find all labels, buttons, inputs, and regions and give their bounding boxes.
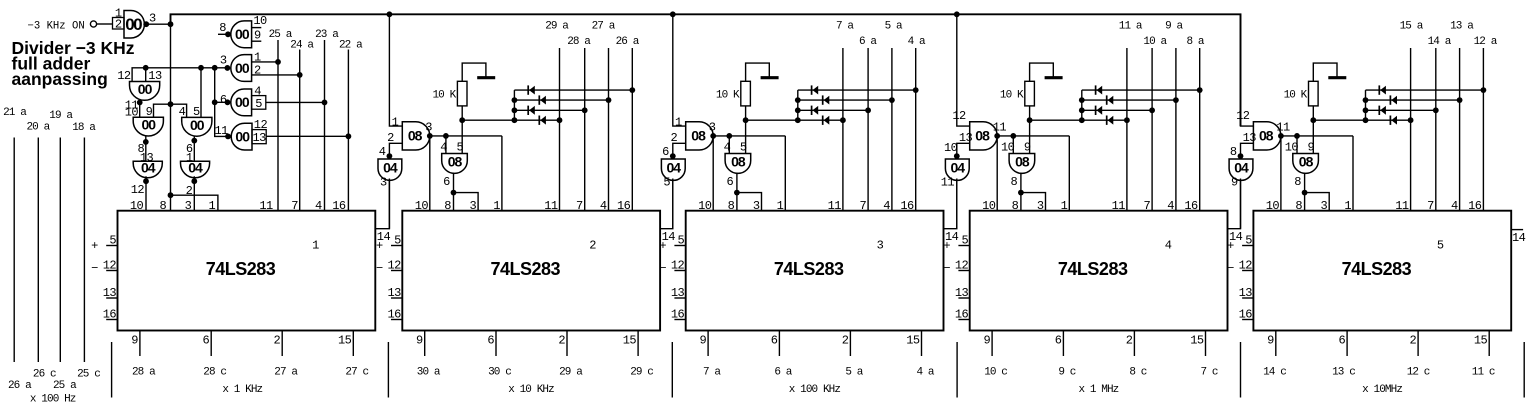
- svg-text:19 a: 19 a: [49, 110, 73, 122]
- svg-text:5: 5: [962, 234, 969, 248]
- svg-text:10: 10: [130, 199, 144, 213]
- bus line 10 a to block4 IC pin 7: [1143, 36, 1167, 211]
- U1 bottom pins 9 6 2 15: [131, 331, 353, 357]
- wire block2 AND output net to IC pins 10 and 1: [427, 133, 502, 211]
- wire block3 V-AND output to IC pins 8 and 3: [734, 173, 762, 211]
- U2 left pins 5 12 13 16: [376, 234, 402, 322]
- wire -3KHz bus drop to block2 AND gate pin 1: [389, 14, 402, 126]
- signal line 18 a: [72, 122, 96, 362]
- wire block4 V-AND input pin 9 / resistor bottom: [1029, 106, 1031, 154]
- svg-text:7: 7: [576, 199, 583, 213]
- svg-text:2: 2: [1126, 334, 1133, 348]
- U2 bottom pins 9 6 2 15: [416, 331, 638, 357]
- svg-text:10 K: 10 K: [1284, 90, 1308, 102]
- svg-text:16: 16: [1468, 199, 1482, 213]
- bus line 14 a to block5 IC pin 7: [1428, 36, 1452, 211]
- svg-text:12: 12: [1236, 109, 1250, 123]
- svg-text:00: 00: [125, 15, 142, 34]
- group separator line: [956, 342, 958, 398]
- svg-text:25 c: 25 c: [77, 368, 100, 380]
- svg-text:4: 4: [1451, 199, 1458, 213]
- bus line 26 a to block2 IC pin 16: [616, 36, 640, 211]
- svg-text:+: +: [376, 239, 383, 253]
- NAND gate G1 00 pins 1,2 out 3: [113, 6, 157, 38]
- svg-text:7: 7: [1427, 199, 1434, 213]
- svg-text:6: 6: [1055, 334, 1062, 348]
- bus line 4 a to block3 IC pin 16: [908, 36, 926, 211]
- svg-text:08: 08: [408, 128, 423, 144]
- U2 output signal labels: [417, 367, 654, 379]
- svg-text:9: 9: [131, 334, 138, 348]
- svg-text:10 c: 10 c: [984, 367, 1007, 379]
- input terminal -3 KHz ON: [28, 20, 113, 32]
- svg-text:8: 8: [1295, 199, 1302, 213]
- svg-text:27 a: 27 a: [592, 20, 616, 32]
- svg-text:11: 11: [1395, 199, 1409, 213]
- svg-text:6 a: 6 a: [859, 36, 877, 48]
- wire block3 diode row 3: [798, 107, 871, 113]
- svg-text:00: 00: [190, 117, 205, 133]
- U2 pin 14 wire to inverter of next stage: [660, 180, 675, 244]
- diode block2 D1: [528, 85, 535, 94]
- svg-text:3: 3: [753, 199, 760, 213]
- wire DG2 output pin 8 to inverter IV1: [138, 136, 154, 165]
- svg-text:−: −: [91, 262, 98, 276]
- svg-text:00: 00: [142, 117, 157, 133]
- U1 frequency group label: [222, 384, 262, 396]
- diode block5 D1: [1379, 85, 1386, 94]
- svg-text:5: 5: [255, 97, 262, 111]
- inverter block3 04 pins 6/5: [661, 145, 685, 190]
- wire block5 diode row 1: [1366, 87, 1487, 93]
- wire block5 inverter input from previous IC pin 14: [1240, 179, 1242, 229]
- svg-text:2: 2: [558, 334, 565, 348]
- svg-text:x 100 KHz: x 100 KHz: [789, 384, 841, 396]
- U3 left pins 5 12 13 16: [659, 234, 685, 322]
- svg-text:11: 11: [828, 199, 842, 213]
- diode block4 D4: [1107, 116, 1114, 125]
- svg-text:12: 12: [671, 259, 685, 273]
- wire block4 inverter input from previous IC pin 14: [956, 179, 958, 229]
- svg-text:13: 13: [671, 286, 685, 300]
- wire block4 diode row 1: [1082, 87, 1203, 93]
- U2 top pin number labels: [415, 199, 631, 213]
- svg-text:11: 11: [215, 124, 229, 138]
- svg-text:16: 16: [1239, 308, 1253, 322]
- wire block2 diode row 2: [514, 97, 611, 103]
- svg-text:08: 08: [731, 153, 746, 169]
- svg-text:12 c: 12 c: [1407, 367, 1430, 379]
- wire block5 diode row 2: [1366, 97, 1463, 103]
- AND gate block4 08 pins 12,13 out 11: [952, 109, 1006, 150]
- svg-text:13: 13: [1239, 286, 1253, 300]
- svg-text:04: 04: [951, 159, 966, 175]
- svg-text:12: 12: [387, 259, 401, 273]
- wire DG2 pin 9 from -3KHz vertical: [154, 104, 187, 117]
- svg-text:−: −: [1227, 262, 1234, 276]
- svg-text:00: 00: [235, 26, 250, 42]
- AND gate block5 08 pins 12,13 out 11: [1236, 109, 1290, 150]
- svg-text:7 a: 7 a: [703, 367, 721, 379]
- svg-text:x 100 Hz: x 100 Hz: [30, 394, 76, 406]
- svg-text:x 10 KHz: x 10 KHz: [508, 384, 554, 396]
- AND gate block2 08 pins 1,2 out 3: [387, 116, 432, 150]
- svg-text:7 a: 7 a: [836, 20, 854, 32]
- U4 left pins 5 12 13 16: [943, 234, 969, 322]
- svg-text:5: 5: [678, 234, 685, 248]
- svg-text:6: 6: [220, 93, 227, 107]
- svg-text:2: 2: [1409, 334, 1416, 348]
- diode block3 D4: [823, 116, 830, 125]
- U1 pin 14 wire to inverter of next stage: [375, 180, 390, 244]
- svg-text:12: 12: [103, 259, 117, 273]
- wire block5 V-AND output to IC pins 8 and 3: [1302, 173, 1330, 211]
- svg-text:11 c: 11 c: [1472, 367, 1495, 379]
- svg-text:30 c: 30 c: [488, 367, 511, 379]
- AND gate block2 08 vertical pins 4,5 out 6: [440, 141, 467, 189]
- svg-text:6: 6: [771, 334, 778, 348]
- svg-text:15: 15: [906, 334, 920, 348]
- svg-text:10: 10: [415, 199, 429, 213]
- svg-text:29 a: 29 a: [545, 20, 569, 32]
- U5 output signal labels: [1263, 367, 1495, 379]
- inverter block2 04 pins 4/3: [378, 145, 402, 190]
- svg-text:8 a: 8 a: [1186, 36, 1204, 48]
- svg-text:1: 1: [312, 239, 319, 253]
- svg-text:14: 14: [1512, 231, 1526, 245]
- svg-text:16: 16: [332, 199, 346, 213]
- svg-text:15: 15: [623, 334, 637, 348]
- wire block3 AND pin 2 to inverter output: [670, 143, 686, 159]
- AND gate block5 08 vertical pins 10,9 out 8: [1285, 141, 1319, 189]
- ground symbol block4: [1045, 76, 1063, 79]
- bus line 12 a to block5 IC pin 16: [1474, 36, 1498, 211]
- svg-text:74LS283: 74LS283: [774, 259, 844, 279]
- svg-text:08: 08: [1259, 128, 1274, 144]
- U3 output signal labels: [703, 367, 935, 379]
- svg-text:28 a: 28 a: [567, 36, 591, 48]
- svg-text:6: 6: [203, 334, 210, 348]
- svg-text:04: 04: [141, 160, 156, 176]
- wire block2 V-AND input pin 4: [445, 136, 447, 154]
- adder IC U4 74LS283 body: [970, 211, 1228, 331]
- adder IC U1 74LS283 body: [118, 211, 376, 331]
- svg-text:16: 16: [900, 199, 914, 213]
- svg-text:74LS283: 74LS283: [206, 259, 276, 279]
- wire -3KHz bus drop to block3 AND gate pin 1: [673, 14, 686, 126]
- svg-text:3: 3: [1321, 199, 1328, 213]
- svg-text:x 1 MHz: x 1 MHz: [1078, 384, 1118, 396]
- U1 left pins 5 12 13 16: [91, 234, 117, 322]
- svg-text:4: 4: [1167, 199, 1174, 213]
- bus line 25 a to IC1 pin: [269, 29, 293, 211]
- svg-text:16: 16: [103, 308, 117, 322]
- svg-text:10: 10: [1001, 141, 1015, 155]
- svg-text:9 c: 9 c: [1058, 367, 1075, 379]
- junction -3KHz bus / block4 drop: [954, 11, 960, 17]
- wire block4 resistor top to ground: [1030, 63, 1054, 81]
- wire block5 V-AND input pin 10: [1296, 136, 1298, 154]
- svg-text:5: 5: [109, 234, 116, 248]
- wire DG1 output pin 11 to DG2 pin 10: [125, 99, 143, 120]
- wire block4 V-AND input pin 10: [1012, 136, 1014, 154]
- svg-text:08: 08: [975, 128, 990, 144]
- U3 bottom pins 9 6 2 15: [699, 331, 921, 357]
- svg-text:04: 04: [667, 159, 682, 175]
- svg-text:1: 1: [115, 6, 122, 20]
- svg-text:12: 12: [952, 109, 966, 123]
- wire gate G2 output net: [132, 65, 230, 82]
- svg-text:14 a: 14 a: [1428, 36, 1452, 48]
- svg-text:74LS283: 74LS283: [1342, 259, 1412, 279]
- svg-text:6 a: 6 a: [774, 367, 792, 379]
- svg-text:4: 4: [883, 199, 890, 213]
- svg-text:8: 8: [219, 21, 226, 35]
- svg-text:04: 04: [188, 160, 203, 176]
- wire block5 diode row 3: [1366, 107, 1439, 113]
- svg-text:04: 04: [1234, 159, 1249, 175]
- svg-text:7: 7: [859, 199, 866, 213]
- junction -3KHz bus / block2 drop: [387, 11, 393, 17]
- bus line 7 a to block3 IC pin 11: [836, 20, 854, 210]
- svg-text:4: 4: [315, 199, 322, 213]
- wire block3 V-AND input pin 5 / resistor bottom: [745, 106, 747, 154]
- svg-text:5: 5: [1245, 234, 1252, 248]
- U3 frequency group label: [789, 384, 841, 396]
- wire block3 diode tie vertical: [795, 90, 801, 120]
- svg-text:9: 9: [699, 334, 706, 348]
- svg-text:−: −: [376, 262, 383, 276]
- svg-text:30 a: 30 a: [417, 367, 441, 379]
- svg-text:13: 13: [148, 69, 162, 83]
- svg-text:1: 1: [254, 51, 261, 65]
- svg-text:3: 3: [380, 176, 387, 190]
- svg-text:x 1 KHz: x 1 KHz: [222, 384, 262, 396]
- wire block5 resistor top to ground: [1313, 63, 1337, 81]
- wire block5 AND pin 13 to inverter output: [1238, 143, 1254, 159]
- wire block2 resistor top to ground: [462, 63, 486, 81]
- wire IV2 output pin 2 to IC1 pin 3: [186, 176, 198, 210]
- wire block5 diode tie vertical: [1363, 90, 1369, 120]
- wire DG1 pin 13: [145, 68, 147, 82]
- svg-text:28 c: 28 c: [203, 367, 226, 379]
- inverter block5 04 pins 8/9: [1229, 145, 1253, 190]
- AND gate block4 08 vertical pins 10,9 out 8: [1001, 141, 1035, 189]
- U5 bottom pins 9 6 2 15: [1267, 331, 1489, 357]
- svg-text:74LS283: 74LS283: [1058, 259, 1128, 279]
- svg-text:08: 08: [691, 128, 706, 144]
- svg-text:1: 1: [1061, 199, 1068, 213]
- svg-text:6: 6: [443, 175, 450, 189]
- svg-text:4 a: 4 a: [916, 367, 934, 379]
- svg-text:11 a: 11 a: [1119, 20, 1143, 32]
- svg-text:3: 3: [709, 121, 716, 135]
- svg-text:9: 9: [416, 334, 423, 348]
- svg-text:4: 4: [179, 105, 186, 119]
- wire block2 diode tie vertical: [512, 90, 518, 120]
- svg-text:10 a: 10 a: [1143, 36, 1167, 48]
- wire block4 diode tie vertical: [1079, 90, 1085, 120]
- svg-text:5 a: 5 a: [885, 20, 903, 32]
- wire block2 AND pin 2 to inverter output: [387, 143, 403, 159]
- svg-text:23 a: 23 a: [315, 29, 339, 41]
- wire block3 V-AND input pin 4: [728, 136, 730, 154]
- NAND gate DG2 00 pins 10,9 out 8: [133, 105, 163, 136]
- svg-text:8: 8: [1230, 145, 1237, 159]
- svg-text:12: 12: [1239, 259, 1253, 273]
- svg-text:−: −: [659, 262, 666, 276]
- wire DG3 output pin 6 to inverter IV2: [186, 136, 197, 165]
- wire block2 V-AND input pin 5 / resistor bottom: [461, 106, 463, 154]
- svg-text:+: +: [1227, 239, 1234, 253]
- NAND gate G2 00 pins 1,2 out 3: [220, 51, 303, 82]
- U3 pin 14 wire to inverter of next stage: [944, 180, 959, 244]
- svg-text:8 c: 8 c: [1129, 367, 1146, 379]
- wire block3 diode row 2: [798, 97, 895, 103]
- svg-text:2: 2: [274, 334, 281, 348]
- NAND gate DG3 00 pins 4,5 out 6: [179, 105, 212, 136]
- wire jog to IC1 pin 1: [171, 195, 218, 211]
- diode block2 D3: [528, 106, 535, 115]
- svg-text:16: 16: [671, 308, 685, 322]
- svg-text:11: 11: [544, 199, 558, 213]
- wire block2 inverter input from previous IC pin 14: [388, 179, 390, 229]
- svg-text:13: 13: [103, 286, 117, 300]
- group separator line: [111, 342, 113, 398]
- inverter block4 04 pins 10/11: [941, 141, 970, 189]
- wire block5 diode row 4 from resistor: [1310, 117, 1413, 123]
- svg-text:4: 4: [379, 145, 386, 159]
- svg-text:+: +: [943, 239, 950, 253]
- svg-text:2: 2: [186, 184, 193, 198]
- svg-text:5 a: 5 a: [845, 367, 863, 379]
- diode block3 D3: [812, 106, 819, 115]
- signal line 19 a: [49, 110, 73, 362]
- U1 output signal labels: [132, 367, 369, 379]
- bus line 23 a to IC1 pin: [315, 29, 339, 211]
- svg-text:1: 1: [493, 199, 500, 213]
- wire to G3 and G4 outputs: [212, 68, 231, 140]
- svg-text:21 a: 21 a: [3, 107, 27, 119]
- svg-text:27 a: 27 a: [274, 367, 298, 379]
- svg-text:00: 00: [235, 60, 250, 76]
- svg-text:16: 16: [617, 199, 631, 213]
- svg-text:4: 4: [1165, 239, 1172, 253]
- svg-text:24 a: 24 a: [290, 40, 314, 52]
- svg-text:5: 5: [1437, 239, 1444, 253]
- svg-text:8: 8: [444, 199, 451, 213]
- svg-text:13: 13: [252, 131, 266, 145]
- wire block5 V-AND input pin 9 / resistor bottom: [1312, 106, 1314, 154]
- svg-text:1: 1: [1344, 199, 1351, 213]
- resistor block5 10K: [1284, 81, 1319, 106]
- NAND gate DG1 00 pins 12,13 out 11: [117, 69, 162, 100]
- U5 left pins 5 12 13 16: [1227, 234, 1253, 322]
- svg-text:1: 1: [392, 116, 399, 130]
- svg-text:10: 10: [944, 141, 958, 155]
- svg-text:16: 16: [1184, 199, 1198, 213]
- ground symbol block3: [761, 76, 779, 79]
- diode block4 D3: [1096, 106, 1103, 115]
- svg-text:00: 00: [138, 81, 153, 97]
- svg-text:00: 00: [235, 128, 250, 144]
- NAND gate G4 00 pins 12,13 out 11: [215, 118, 352, 150]
- svg-text:11: 11: [993, 121, 1007, 135]
- svg-text:7: 7: [291, 199, 298, 213]
- svg-text:1: 1: [208, 199, 215, 213]
- wire -3KHz bus drop to block4 AND gate pin 12: [957, 14, 970, 126]
- group separator line: [387, 342, 389, 398]
- svg-text:1: 1: [777, 199, 784, 213]
- wire block5 AND output net to IC pins 10 and 1: [1278, 133, 1353, 211]
- svg-text:10 K: 10 K: [1000, 90, 1024, 102]
- svg-text:13 a: 13 a: [1450, 20, 1474, 32]
- svg-text:−3 KHz ON: −3 KHz ON: [28, 20, 85, 32]
- svg-text:11: 11: [941, 176, 955, 190]
- svg-text:10: 10: [982, 199, 996, 213]
- svg-text:2: 2: [254, 64, 261, 78]
- wire DG3 pin 5: [200, 68, 202, 118]
- U5 frequency group label: [1362, 384, 1402, 396]
- diode block4 D1: [1096, 85, 1103, 94]
- svg-text:8: 8: [159, 199, 166, 213]
- U2 frequency group label: [508, 384, 554, 396]
- resistor block2 10K: [432, 81, 467, 106]
- bus line 9 a to block4 IC pin 4: [1165, 20, 1183, 210]
- NAND gate G3 00 pins 4,5 out 6: [220, 84, 328, 115]
- group separator line: [671, 342, 673, 398]
- wire block2 diode row 1: [514, 87, 635, 93]
- svg-text:18 a: 18 a: [72, 122, 96, 134]
- svg-text:5: 5: [394, 234, 401, 248]
- diode block3 D1: [812, 85, 819, 94]
- group separator line: [1240, 342, 1242, 398]
- svg-text:28 a: 28 a: [132, 367, 156, 379]
- adder IC U3 74LS283 body: [686, 211, 944, 331]
- svg-text:9 a: 9 a: [1165, 20, 1183, 32]
- svg-text:10: 10: [1266, 199, 1280, 213]
- svg-text:5: 5: [193, 105, 200, 119]
- bus line 29 a to block2 IC pin 11: [545, 20, 569, 210]
- bus line 15 a to block5 IC pin 11: [1400, 20, 1424, 210]
- bus line 6 a to block3 IC pin 7: [859, 36, 877, 211]
- title text: [12, 38, 135, 89]
- svg-text:4 a: 4 a: [908, 36, 926, 48]
- NAND gate G1b 00 pins 10,9 out 8: [218, 14, 267, 48]
- wire block2 V-AND output to IC pins 8 and 3: [451, 173, 479, 211]
- svg-text:9: 9: [983, 334, 990, 348]
- signal line 21 a: [3, 107, 27, 362]
- svg-text:16: 16: [387, 308, 401, 322]
- wire NAND output to -3KHz node: [146, 21, 173, 27]
- svg-text:74LS283: 74LS283: [491, 259, 561, 279]
- svg-text:12: 12: [131, 183, 145, 197]
- svg-text:08: 08: [448, 153, 463, 169]
- svg-text:8: 8: [1012, 199, 1019, 213]
- svg-text:15 a: 15 a: [1400, 20, 1424, 32]
- U1 top pin number labels: [130, 199, 346, 213]
- svg-text:3: 3: [149, 12, 156, 26]
- svg-text:9: 9: [254, 29, 261, 43]
- resistor block4 10K: [1000, 81, 1035, 106]
- U4 pin 14 wire to inverter of next stage: [1228, 180, 1243, 244]
- wire block4 AND output net to IC pins 10 and 1: [994, 133, 1069, 211]
- -3KHz main vertical to IC1 pin 8: [168, 24, 174, 211]
- U4 output signal labels: [984, 367, 1218, 379]
- svg-text:5: 5: [663, 176, 670, 190]
- svg-text:9: 9: [146, 105, 153, 119]
- svg-text:11: 11: [259, 199, 273, 213]
